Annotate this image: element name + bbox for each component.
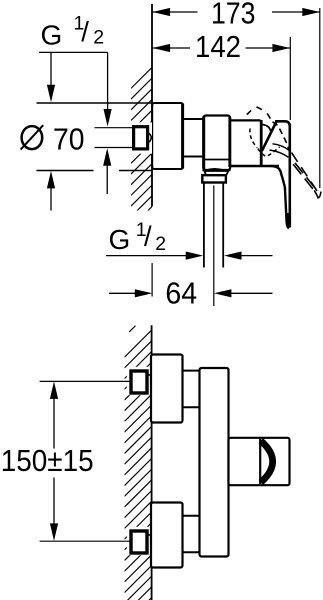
svg-text:64: 64 — [165, 276, 197, 311]
body bottom segments — [203, 169, 207, 171]
blade left edge — [271, 166, 289, 228]
body parting line — [204, 159, 231, 161]
150 ext lines — [40, 380, 130, 382]
wall hatching bottom — [125, 330, 152, 600]
top union halo — [127, 367, 152, 395]
flange right edge bold — [181, 104, 184, 169]
bottom union ball arc — [148, 535, 155, 548]
outlet dome arc — [206, 169, 223, 170]
lever top right segment — [275, 121, 290, 126]
collar chamfer — [204, 171, 228, 175]
top escutcheon block — [151, 355, 183, 423]
dim 150±15 — [53, 396, 55, 449]
dashed lever blade tip hook — [314, 190, 321, 198]
dim 64 — [109, 292, 138, 294]
wall hatching top — [131, 67, 152, 238]
ext line right 142 — [289, 37, 291, 120]
svg-text:/: / — [81, 16, 89, 47]
union up arrow — [106, 163, 108, 194]
in-wall union halo — [130, 122, 152, 153]
blade inner thin curves — [273, 144, 289, 150]
escutcheon flange — [152, 103, 183, 169]
svg-text:2: 2 — [155, 233, 166, 255]
top connector — [183, 370, 201, 372]
outlet nut — [202, 175, 226, 182]
bottom connector — [183, 515, 201, 517]
mid G1/2 leader to pipe — [106, 255, 189, 257]
hub bottom line — [230, 165, 280, 168]
step cylinder — [183, 118, 203, 120]
blade tip fill — [286, 213, 291, 228]
dia70 ext top — [37, 102, 153, 104]
shower pipe walls — [203, 183, 205, 268]
G1/2 leader underline — [39, 51, 108, 53]
dia 70 label — [22, 126, 43, 149]
handle cap face line — [259, 439, 261, 484]
svg-text:70: 70 — [53, 121, 85, 156]
svg-text:142: 142 — [195, 29, 241, 64]
pipe centerline — [213, 186, 215, 307]
pipe right arrow — [239, 255, 273, 257]
hub right edge — [260, 120, 263, 166]
svg-text:/: / — [144, 221, 152, 252]
union ball arc — [147, 133, 151, 143]
in-wall union — [134, 127, 148, 149]
top union ball arc — [148, 375, 155, 388]
wall face line bottom — [151, 325, 153, 600]
wall face line top — [151, 4, 153, 207]
mixer body (rear view) — [200, 368, 229, 557]
dim 142 line — [153, 47, 190, 49]
union G1/2 extension lines — [95, 127, 133, 129]
dim 173 line — [153, 11, 198, 13]
top union block — [131, 371, 147, 393]
svg-text:G: G — [109, 224, 131, 255]
hub top — [231, 119, 261, 121]
bottom escutcheon block — [151, 503, 183, 568]
svg-text:173: 173 — [211, 0, 256, 31]
dia70 ext bottom — [37, 170, 94, 172]
wall face line redraw over halos — [151, 366, 153, 396]
64 left ext line — [151, 263, 153, 297]
ext line right 173 — [319, 8, 321, 188]
dia70 top arrow — [50, 53, 52, 88]
lever/blade right edge — [288, 124, 291, 227]
handle (top view) — [229, 438, 290, 485]
cone diagonal — [262, 122, 276, 151]
dia70 bottom arrow — [50, 186, 52, 211]
hatch stub top — [129, 326, 135, 332]
svg-text:150±15: 150±15 — [1, 443, 94, 478]
svg-text:2: 2 — [93, 27, 104, 49]
bottom union block — [131, 531, 147, 553]
cone fillet arc — [262, 125, 270, 132]
handle crescent — [261, 441, 273, 483]
main body — [203, 116, 230, 171]
svg-text:G: G — [41, 20, 63, 51]
bottom union halo — [127, 527, 152, 555]
dashed lever raised: tip outline — [247, 107, 318, 192]
